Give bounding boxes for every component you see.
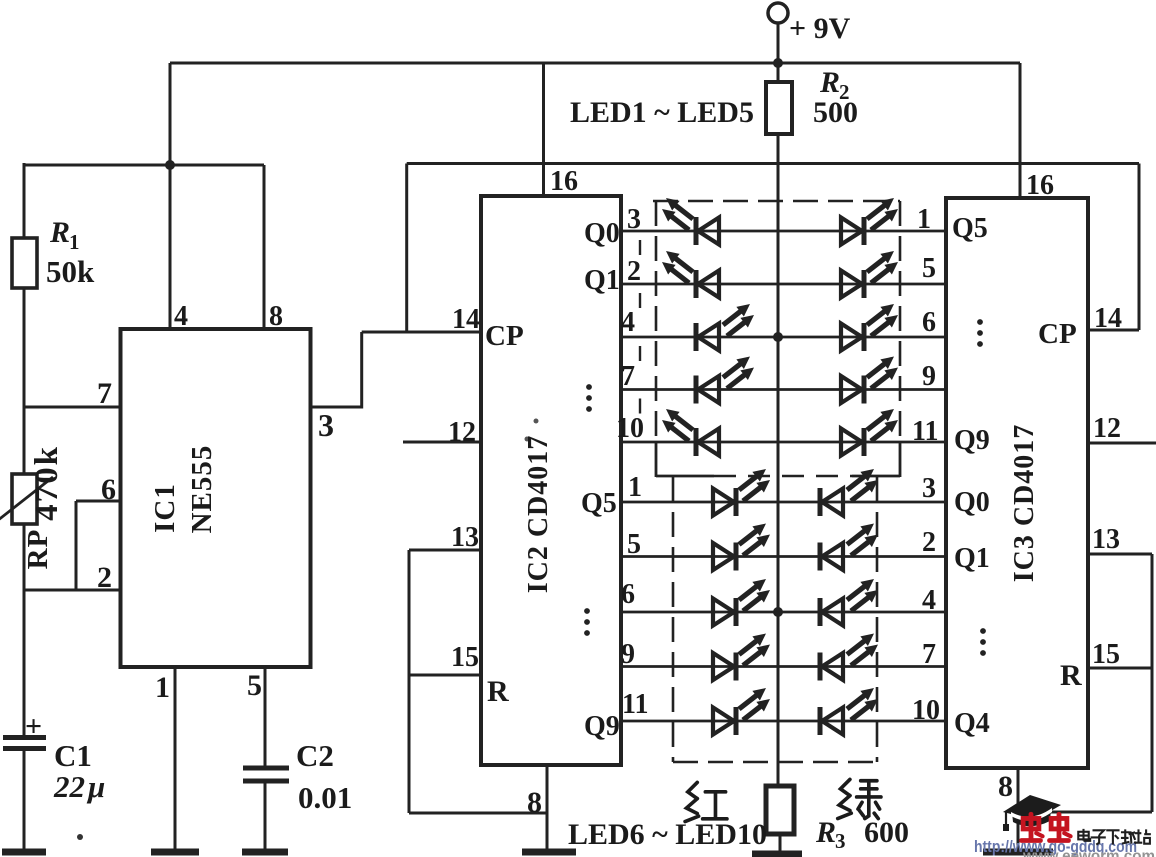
svg-text:7: 7	[97, 377, 112, 410]
svg-text:9: 9	[621, 639, 635, 670]
svg-text:16: 16	[1026, 170, 1054, 201]
svg-text:8: 8	[269, 301, 283, 332]
svg-text:13: 13	[1092, 524, 1120, 555]
svg-text:R: R	[1060, 659, 1082, 692]
svg-text:5: 5	[627, 529, 641, 560]
svg-text:10: 10	[616, 413, 644, 444]
svg-text:6: 6	[922, 307, 936, 338]
svg-text:Q1: Q1	[954, 543, 990, 574]
svg-text:Q1: Q1	[584, 265, 620, 296]
svg-text:11: 11	[622, 689, 648, 720]
svg-text:IC1: IC1	[149, 483, 181, 533]
svg-text:8: 8	[998, 770, 1013, 803]
svg-text:3: 3	[922, 473, 936, 504]
svg-text:15: 15	[1092, 639, 1120, 670]
svg-text:3: 3	[627, 204, 641, 235]
svg-text:10: 10	[912, 695, 940, 726]
svg-text:CP: CP	[485, 320, 524, 352]
svg-text:LED6 ~ LED10: LED6 ~ LED10	[568, 818, 767, 851]
svg-text:+ 9V: + 9V	[789, 12, 851, 45]
svg-text:3: 3	[835, 829, 846, 853]
svg-text:R: R	[49, 216, 70, 249]
svg-text:Q4: Q4	[954, 708, 990, 739]
svg-text:IC2 CD4017: IC2 CD4017	[523, 435, 554, 594]
svg-text:1: 1	[917, 204, 931, 235]
svg-text:NE555: NE555	[186, 445, 218, 534]
svg-text:5: 5	[922, 253, 936, 284]
svg-text:6: 6	[101, 473, 116, 506]
svg-text:1: 1	[628, 472, 642, 503]
svg-text:13: 13	[451, 522, 479, 553]
svg-text:RP: RP	[22, 529, 54, 570]
svg-text:3: 3	[318, 407, 334, 443]
svg-text:2: 2	[627, 256, 641, 287]
svg-text:500: 500	[813, 96, 858, 129]
svg-text:16: 16	[550, 166, 578, 197]
svg-text:22: 22	[53, 769, 85, 804]
svg-text:www.eeworm.com: www.eeworm.com	[1022, 848, 1155, 857]
svg-text:2: 2	[922, 527, 936, 558]
svg-text:0.01: 0.01	[298, 780, 352, 815]
svg-text:7: 7	[621, 361, 635, 392]
svg-text:15: 15	[451, 642, 479, 673]
svg-text:LED1 ~ LED5: LED1 ~ LED5	[570, 96, 754, 129]
svg-text:C1: C1	[54, 738, 92, 773]
svg-text:CP: CP	[1038, 318, 1077, 350]
svg-text:8: 8	[527, 786, 542, 819]
svg-text:Q5: Q5	[581, 488, 617, 519]
svg-text:4: 4	[922, 585, 936, 616]
svg-text:Q9: Q9	[954, 425, 990, 456]
svg-text:9: 9	[922, 361, 936, 392]
svg-text:470k: 470k	[29, 445, 65, 521]
svg-text:6: 6	[621, 579, 635, 610]
svg-text:12: 12	[1093, 413, 1121, 444]
svg-text:11: 11	[912, 416, 938, 447]
svg-text:IC3 CD4017: IC3 CD4017	[1009, 424, 1040, 583]
svg-text:14: 14	[1094, 303, 1122, 334]
svg-text:R: R	[819, 66, 840, 99]
svg-text:14: 14	[452, 304, 480, 335]
svg-text:1: 1	[69, 230, 80, 254]
svg-text:Q5: Q5	[952, 213, 988, 244]
svg-text:7: 7	[922, 639, 936, 670]
svg-text:50k: 50k	[46, 254, 95, 289]
svg-text:C2: C2	[296, 738, 334, 773]
svg-text:600: 600	[864, 816, 909, 849]
svg-text:4: 4	[621, 307, 635, 338]
svg-text:2: 2	[97, 561, 112, 594]
svg-text:R: R	[487, 675, 509, 708]
svg-text:+: +	[25, 710, 42, 743]
svg-text:Q0: Q0	[954, 487, 990, 518]
svg-text:5: 5	[247, 669, 262, 702]
svg-text:4: 4	[174, 301, 188, 332]
svg-text:R: R	[815, 816, 836, 849]
svg-text:Q0: Q0	[584, 218, 620, 249]
svg-text:12: 12	[448, 417, 476, 448]
svg-text:Q9: Q9	[584, 711, 620, 742]
svg-text:μ: μ	[86, 769, 105, 804]
svg-text:1: 1	[155, 671, 170, 704]
